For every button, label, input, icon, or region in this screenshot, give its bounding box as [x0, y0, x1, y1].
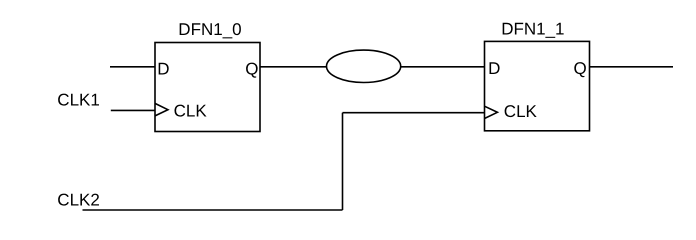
flip-flop U2 body (DFN1_1)	[485, 41, 590, 130]
wire CLK2 horizontal bottom segment	[83, 209, 343, 211]
wire CLK2 vertical segment	[342, 113, 344, 210]
wire CLK1 to U1 clock pin	[111, 109, 155, 111]
ellipse net marker	[327, 50, 401, 82]
svg-text:Q: Q	[574, 59, 587, 78]
svg-text:D: D	[488, 59, 500, 78]
svg-text:CLK: CLK	[174, 102, 208, 121]
clock pin triangle (U1)	[155, 103, 168, 116]
wire Q of U1 to ellipse	[260, 66, 327, 68]
svg-text:CLK1: CLK1	[57, 91, 100, 110]
wire Q output of U2	[590, 66, 674, 68]
wire D input of U1	[110, 66, 155, 68]
svg-text:DFN1_1: DFN1_1	[501, 20, 564, 39]
clock pin triangle (U2)	[485, 106, 498, 118]
svg-text:D: D	[157, 60, 169, 79]
svg-text:DFN1_0: DFN1_0	[178, 20, 241, 39]
wire CLK2 top segment to U2 clock pin	[343, 112, 485, 114]
svg-text:CLK2: CLK2	[57, 191, 100, 210]
svg-text:CLK: CLK	[504, 102, 538, 121]
wire ellipse to D of U2	[401, 66, 485, 68]
svg-text:Q: Q	[245, 60, 258, 79]
flip-flop U1 body (DFN1_0)	[155, 43, 260, 132]
